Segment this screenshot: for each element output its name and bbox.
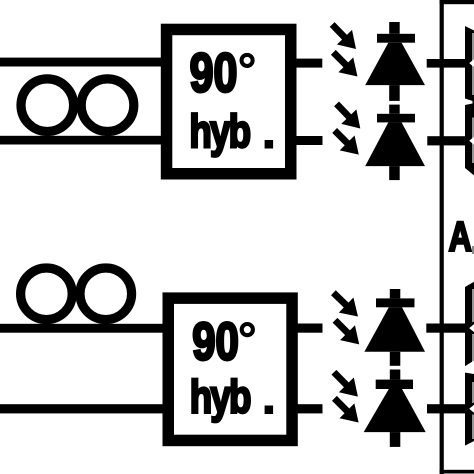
amplifier strip (top pair run, cut at image edge) bbox=[465, 26, 474, 175]
svg-text:hyb: hyb bbox=[189, 105, 249, 157]
label period after hyb (bottom hybrid) bbox=[265, 406, 274, 415]
partial next letter artifact right of A bbox=[472, 246, 474, 254]
amplifier strip (bottom pair run, cut at image edge) bbox=[465, 282, 474, 446]
photodiode D4 (bottom pair, lower) bbox=[364, 370, 426, 447]
polarization controller loop 2 (top branch) bbox=[81, 79, 134, 132]
wire: signal input fiber (top branch, line 1) bbox=[0, 58, 166, 67]
wire: LO input fiber (top branch, line 2) bbox=[0, 136, 166, 145]
wire: hybrid top output stub 2 bbox=[290, 136, 323, 145]
wire: D1 output to ADC box bbox=[427, 59, 466, 68]
svg-text:90: 90 bbox=[192, 313, 239, 372]
light arrow 1b into photodiode D1 bbox=[326, 45, 365, 84]
op-amp U-hybrid: 90-degree hybrid box (bottom) bbox=[168, 298, 292, 440]
ADC box left edge bbox=[440, 0, 444, 474]
light arrow 2b into photodiode D2 bbox=[327, 123, 366, 162]
wire: hybrid bottom output stub 3 bbox=[291, 324, 323, 333]
svg-text:90: 90 bbox=[190, 44, 238, 104]
op-amp U-hybrid: 90-degree hybrid box (top) bbox=[167, 29, 291, 173]
wire: LO input fiber (bottom branch, line 4) bbox=[0, 404, 168, 413]
polarization controller loop 4 (bottom branch) bbox=[80, 268, 132, 320]
svg-text:hyb: hyb bbox=[190, 370, 250, 422]
light arrow 4b into photodiode D4 bbox=[327, 391, 366, 430]
ADC box top edge bbox=[440, 0, 474, 4]
polarization controller loop 3 (bottom branch) bbox=[21, 268, 73, 320]
wire: hybrid top output stub 1 bbox=[290, 59, 322, 68]
wire: D3 output to ADC box bbox=[426, 324, 466, 333]
degree symbol (bottom hybrid) bbox=[242, 324, 253, 335]
wire: hybrid bottom output stub 4 bbox=[291, 404, 323, 413]
photodiode D2 (top pair, lower) bbox=[365, 105, 425, 181]
photodiode D1 (top pair, upper) bbox=[365, 22, 425, 101]
photodiode D3 (bottom pair, upper) bbox=[364, 289, 425, 366]
degree symbol (top hybrid) bbox=[242, 55, 253, 66]
wire: D4 output to ADC box bbox=[427, 404, 466, 413]
wire: D2 output to ADC box bbox=[427, 136, 466, 145]
label period after hyb (top hybrid) bbox=[265, 140, 274, 149]
polarization controller loop 1 (top branch) bbox=[21, 79, 74, 132]
light arrow 2a into photodiode D2 bbox=[329, 97, 368, 136]
light arrow 4a into photodiode D4 bbox=[326, 365, 365, 404]
light arrow 1a into photodiode D1 bbox=[325, 17, 364, 56]
svg-text:A: A bbox=[449, 213, 472, 260]
ADC box bottom edge bbox=[440, 470, 474, 474]
light arrow 3b into photodiode D3 bbox=[328, 313, 367, 352]
light arrow 3a into photodiode D3 bbox=[326, 285, 365, 324]
wire: signal input fiber (bottom branch, line 3) bbox=[0, 324, 168, 333]
